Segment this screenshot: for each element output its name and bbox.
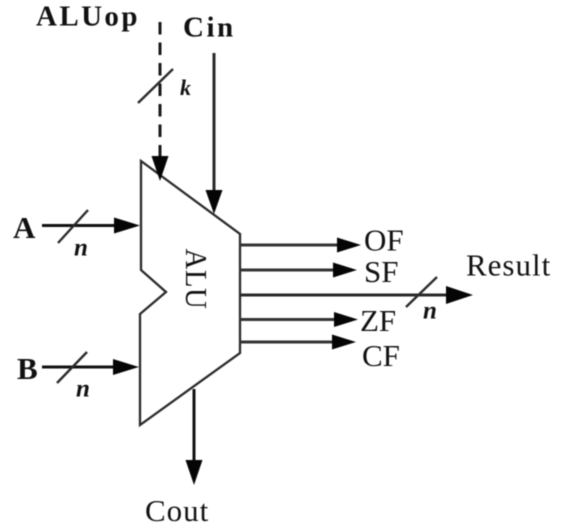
wire B <box>42 366 117 369</box>
svg-text:ZF: ZF <box>360 303 396 338</box>
arrowhead A <box>114 218 140 234</box>
wire ZF <box>239 318 337 321</box>
svg-text:OF: OF <box>364 223 404 258</box>
svg-text:Cin: Cin <box>183 12 236 44</box>
wire Result <box>239 294 450 297</box>
wire ALUop (dashed control line) <box>159 22 162 157</box>
bus slash k <box>138 69 173 103</box>
arrowhead B <box>113 359 139 375</box>
ALU unit U1 (trapezoid body) <box>140 161 240 425</box>
wire A <box>42 224 118 227</box>
arrowhead SF <box>333 263 357 278</box>
arrowhead OF <box>337 238 361 253</box>
arrowhead Result <box>446 286 473 304</box>
svg-text:n: n <box>76 376 90 403</box>
wire SF <box>239 269 336 272</box>
svg-text:CF: CF <box>362 338 400 373</box>
svg-text:B: B <box>17 351 38 386</box>
wire OF <box>239 244 340 247</box>
bus slash n (A) <box>58 210 88 243</box>
svg-text:Cout: Cout <box>145 493 209 528</box>
svg-text:n: n <box>423 298 437 325</box>
svg-text:A: A <box>13 210 36 245</box>
arrowhead Cin <box>206 190 223 214</box>
bus slash n (B) <box>57 352 87 383</box>
svg-text:ALU: ALU <box>179 249 213 310</box>
svg-text:n: n <box>74 235 88 262</box>
wire CF <box>239 341 335 344</box>
wire Cout <box>193 389 196 462</box>
arrowhead ALUop <box>152 156 169 181</box>
arrowhead CF <box>332 335 356 350</box>
svg-text:k: k <box>180 75 191 100</box>
wire Cin <box>213 53 216 192</box>
svg-text:Result: Result <box>466 248 551 283</box>
arrowhead ZF <box>334 312 358 327</box>
arrowhead Cout <box>186 460 203 485</box>
svg-text:SF: SF <box>364 254 398 289</box>
bus slash n (Result) <box>406 277 437 307</box>
svg-text:ALUop: ALUop <box>36 1 140 33</box>
